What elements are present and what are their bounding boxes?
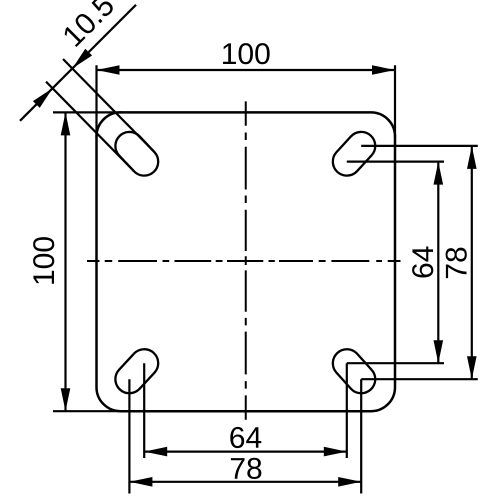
arrow 64 right top (434, 162, 444, 185)
center line horizontal (dash-dot) (87, 260, 401, 262)
arrow 78 bottom right (338, 477, 361, 487)
extension line: slot inner end top-right, to the right (347, 161, 444, 163)
extension line: slot width upper tangent (for 10.5) (63, 59, 154, 152)
arrow 64 bottom right (324, 447, 347, 457)
extension line: slot outer end top-right, to the right (361, 145, 478, 147)
extension line: slot width lower tangent (for 10.5) (46, 82, 134, 172)
arrow 100 top left (97, 65, 120, 75)
label 10.5 (rotated 45) (62, 0, 116, 47)
arrow 78 right bottom (467, 356, 477, 379)
extension line: slot inner end bottom-left, down (143, 363, 145, 458)
dimension line 78 right (471, 146, 473, 379)
extension line: slot inner end bottom-right, down (346, 363, 348, 458)
label 78 right (rotated) (446, 248, 467, 279)
arrow 64 right bottom (434, 340, 444, 363)
plate outline: 100x100 caster mounting plate with rounded corners (97, 112, 396, 411)
extension line: left edge extended up (95, 65, 97, 137)
arrow 10.5 lower (points NE onto lower tangent) (33, 88, 53, 108)
label 64 right (rotated) (412, 246, 433, 277)
arrow 100 left bottom (61, 388, 71, 411)
dimension line 78 bottom (129, 481, 361, 483)
bolt slot top-right (327, 126, 381, 181)
bolt slot bottom-right (327, 343, 381, 399)
dimension line 64 right (437, 162, 439, 364)
label 100 left (rotated) (33, 237, 54, 284)
extension line: slot outer end bottom-right, down (360, 379, 362, 493)
arrow 78 bottom left (129, 477, 152, 487)
arrow 78 right top (467, 146, 477, 169)
extension line: slot outer end bottom-left, down (128, 379, 130, 493)
center line vertical (dash-dot) (245, 101, 247, 419)
dimension line 100 left (64, 112, 66, 411)
label 100 top (223, 43, 270, 64)
extension line: slot inner end bottom-right, to the right (347, 362, 444, 364)
arrow 10.5 upper (points SW onto upper tangent) (72, 49, 92, 69)
extension line: right edge extended up (394, 65, 396, 137)
arrow 100 top right (372, 65, 395, 75)
dimension line 64 bottom (144, 451, 347, 453)
dimension line 100 top (97, 69, 396, 71)
label 78 bottom (231, 458, 262, 479)
extension line: slot outer end bottom-right, to the right (361, 378, 478, 380)
bolt slot top-left (110, 126, 164, 181)
arrow 100 left top (61, 112, 71, 135)
arrow 64 bottom left (144, 447, 167, 457)
extension line: top edge extended left (53, 111, 122, 113)
label 64 bottom (230, 427, 261, 448)
dimension line 10.5 (diagonal) (20, 5, 136, 121)
bolt slot bottom-left (110, 343, 164, 399)
extension line: bottom edge extended left (53, 410, 122, 412)
